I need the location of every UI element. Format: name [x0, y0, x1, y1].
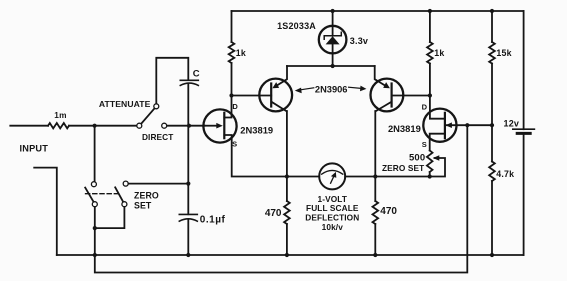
svg-text:D: D: [422, 103, 428, 112]
svg-text:2N3906: 2N3906: [315, 85, 348, 95]
svg-text:SET: SET: [134, 201, 152, 211]
svg-text:2N3819: 2N3819: [388, 123, 421, 134]
svg-text:470: 470: [265, 208, 282, 219]
svg-text:1k: 1k: [434, 48, 444, 58]
svg-text:470: 470: [380, 206, 397, 217]
svg-text:15k: 15k: [496, 48, 511, 58]
svg-text:1k: 1k: [236, 48, 246, 58]
svg-text:S: S: [232, 140, 237, 149]
svg-text:ZERO: ZERO: [134, 191, 159, 201]
svg-text:4.7k: 4.7k: [496, 169, 514, 179]
svg-text:D: D: [232, 102, 238, 111]
svg-text:1m: 1m: [54, 110, 66, 120]
svg-text:S: S: [422, 140, 427, 149]
svg-text:C: C: [193, 69, 200, 80]
svg-text:0.1µf: 0.1µf: [200, 214, 226, 225]
svg-text:3.3v: 3.3v: [350, 36, 368, 46]
svg-text:INPUT: INPUT: [20, 144, 49, 154]
svg-text:10k/v: 10k/v: [322, 222, 344, 232]
svg-text:DEFLECTION: DEFLECTION: [305, 213, 359, 223]
svg-text:ZERO SET: ZERO SET: [382, 163, 424, 173]
svg-text:1S2033A: 1S2033A: [277, 21, 316, 31]
svg-text:DIRECT: DIRECT: [142, 132, 173, 142]
svg-text:12v: 12v: [504, 118, 520, 128]
svg-text:500: 500: [409, 152, 425, 163]
svg-text:ATTENUATE: ATTENUATE: [99, 99, 151, 109]
svg-text:2N3819: 2N3819: [240, 125, 273, 136]
